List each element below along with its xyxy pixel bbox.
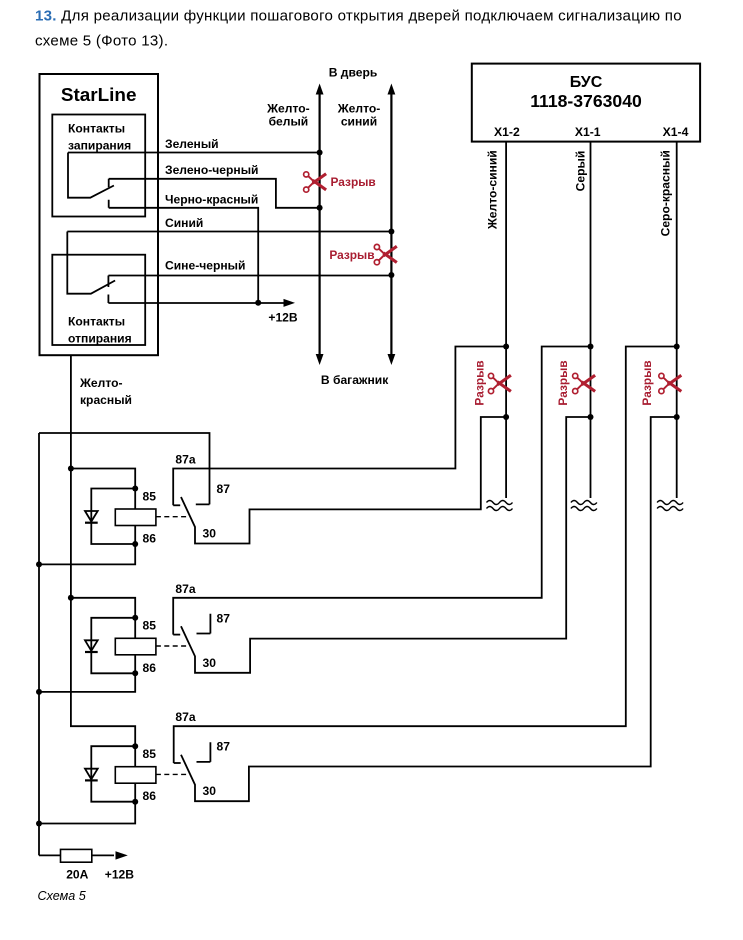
wire +12V bus left	[38, 433, 40, 855]
label Желто-синий	[337, 102, 381, 129]
svg-text:Разрыв: Разрыв	[640, 360, 654, 405]
svg-text:Контакты: Контакты	[68, 122, 125, 136]
node Синий to Желто-синий	[388, 229, 394, 235]
svg-text:В багажник: В багажник	[321, 373, 389, 387]
heading paragraph	[35, 8, 682, 50]
svg-text:белый: белый	[269, 115, 309, 129]
relay K1 coil	[115, 489, 156, 545]
svg-text:Черно-красный: Черно-красный	[165, 193, 258, 207]
svg-text:X1-1: X1-1	[575, 125, 601, 139]
relay K3 pin labels	[143, 710, 231, 803]
relay K2 87a wire to X1-1	[173, 344, 593, 635]
relay K1 contact 30 wire to X1-2	[181, 414, 509, 544]
relay K2 86 return	[36, 670, 138, 695]
node Зелено-черный to Желто-белый	[317, 205, 323, 211]
svg-text:Зеленый: Зеленый	[165, 137, 219, 151]
svg-text:Контакты: Контакты	[68, 315, 125, 329]
relay K3 coil	[115, 746, 156, 802]
wire X1-4 Серо-красный	[659, 142, 677, 498]
node junction Черно-красный/+12V	[255, 300, 261, 306]
relay K2 87 stub	[197, 614, 211, 634]
wire В дверь/багажник Желто-синий line	[388, 84, 396, 366]
svg-text:X1-2: X1-2	[494, 125, 520, 139]
svg-text:30: 30	[203, 656, 217, 670]
svg-text:Зелено-черный: Зелено-черный	[165, 163, 258, 177]
svg-text:Желто-синий: Желто-синий	[486, 150, 500, 230]
relay K1 dashed link	[156, 516, 187, 518]
relay K3 dashed link	[156, 773, 187, 775]
break symbol 2	[571, 501, 597, 511]
node Зеленый to Желто-белый	[317, 150, 323, 156]
box StarLine U1	[40, 74, 159, 355]
relay K2 contact 30 wire to X1-1	[181, 414, 594, 673]
svg-text:Разрыв: Разрыв	[331, 175, 376, 189]
label Желто-белый	[266, 102, 310, 129]
diode VD1	[85, 489, 135, 545]
svg-text:Желто-: Желто-	[337, 102, 381, 116]
svg-text:Синий: Синий	[165, 216, 203, 230]
wire Зелено-черный	[109, 163, 320, 208]
svg-text:30: 30	[203, 784, 217, 798]
wire Желто-красный from StarLine	[71, 355, 135, 746]
svg-text:Схема 5: Схема 5	[38, 889, 87, 903]
svg-text:Сине-черный: Сине-черный	[165, 259, 245, 273]
relay K1 coil tap	[68, 466, 138, 492]
relay K3 87a wire to X1-4	[174, 344, 680, 764]
wire Сине-черный	[108, 259, 391, 276]
relay K3 86 return	[36, 799, 138, 827]
wire relay1 87 feed	[39, 433, 210, 504]
break symbol 3	[657, 501, 683, 511]
wire В дверь/багажник Желто-белый line	[316, 84, 324, 366]
svg-text:БУС: БУС	[570, 74, 603, 91]
scissors cut 4	[573, 373, 596, 393]
svg-text:86: 86	[143, 532, 157, 546]
svg-text:87: 87	[217, 740, 231, 754]
svg-text:Желто-: Желто-	[266, 102, 310, 116]
wire Зеленый	[68, 137, 320, 153]
svg-text:87a: 87a	[175, 582, 195, 596]
svg-text:85: 85	[143, 747, 157, 761]
svg-text:1118-3763040: 1118-3763040	[530, 91, 642, 111]
svg-text:85: 85	[143, 489, 157, 503]
scissors cut 5	[659, 373, 682, 393]
relay K1 pin labels	[143, 453, 231, 546]
svg-text:30: 30	[203, 527, 217, 541]
svg-text:+12В: +12В	[268, 311, 298, 325]
svg-text:запирания: запирания	[68, 139, 131, 153]
diode VD3	[85, 746, 135, 802]
svg-text:Разрыв: Разрыв	[556, 360, 570, 405]
relay K1 87a wire to X1-2	[173, 344, 509, 506]
wire +12V with arrow	[108, 299, 297, 325]
svg-text:86: 86	[143, 789, 157, 803]
box Контакты отпирания	[52, 255, 145, 346]
wire Черно-красный	[109, 193, 259, 303]
svg-text:красный: красный	[80, 393, 132, 407]
wire Синий	[67, 216, 391, 232]
switch S1 запирания	[68, 153, 114, 208]
svg-text:Серый: Серый	[574, 151, 588, 192]
svg-text:Разрыв: Разрыв	[329, 248, 374, 262]
scissors cut 3	[488, 373, 511, 393]
relay K3 87 stub	[197, 742, 211, 762]
relay K2 pin labels	[143, 582, 231, 675]
svg-text:Желто-: Желто-	[79, 376, 123, 390]
svg-text:20А: 20А	[66, 868, 88, 882]
svg-text:синий: синий	[341, 115, 377, 129]
relay K1 86 return	[36, 541, 138, 567]
svg-text:+12В: +12В	[105, 868, 135, 882]
scissors cut 2	[374, 244, 397, 264]
svg-text:схеме 5 (Фото 13).: схеме 5 (Фото 13).	[35, 32, 168, 49]
diode VD2	[85, 618, 135, 674]
svg-text:87: 87	[217, 482, 231, 496]
svg-text:87a: 87a	[175, 453, 195, 467]
fuse 20A	[39, 849, 128, 862]
svg-text:87: 87	[217, 611, 231, 625]
box Контакты запирания	[52, 115, 145, 217]
scissors cut 1	[304, 172, 327, 192]
svg-text:85: 85	[143, 619, 157, 633]
relay K2 dashed link	[156, 645, 187, 647]
box БУС 1118-3763040	[472, 64, 700, 142]
relay K2 coil	[115, 618, 156, 674]
svg-text:Серо-красный: Серо-красный	[659, 150, 673, 236]
svg-text:X1-4: X1-4	[663, 125, 689, 139]
node Сине-черный to Желто-синий	[388, 272, 394, 278]
svg-text:87a: 87a	[175, 710, 195, 724]
relay K3 contact 30 wire to X1-4	[181, 414, 680, 801]
svg-text:Разрыв: Разрыв	[473, 360, 487, 405]
svg-text:отпирания: отпирания	[68, 332, 132, 346]
break symbol 1	[487, 501, 513, 511]
relay K3 coil connect	[132, 743, 138, 749]
svg-text:В дверь: В дверь	[329, 66, 378, 80]
wire X1-2 Желто-синий	[486, 142, 507, 498]
switch S2 отпирания	[67, 232, 115, 304]
svg-text:13. Для реализации функции пош: 13. Для реализации функции пошагового от…	[35, 8, 682, 25]
svg-text:StarLine: StarLine	[61, 85, 137, 106]
svg-text:86: 86	[143, 661, 157, 675]
wire X1-1 Серый	[574, 142, 591, 498]
relay K2 coil tap	[68, 595, 138, 621]
